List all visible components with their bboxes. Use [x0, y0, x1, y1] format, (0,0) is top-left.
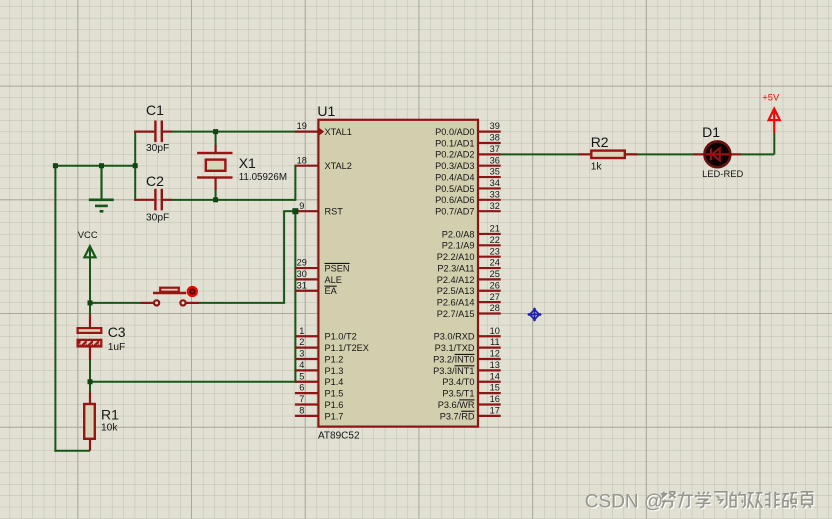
svg-text:39: 39 — [490, 121, 500, 131]
wire LED net R2 to D1 — [626, 153, 695, 155]
node C3 R1 junction — [88, 379, 93, 384]
svg-text:P3.0/RXD: P3.0/RXD — [434, 332, 475, 342]
svg-text:24: 24 — [490, 258, 500, 268]
svg-text:P2.4/A12: P2.4/A12 — [437, 275, 475, 285]
pin 13 P3.3/INT1 (right) — [433, 360, 501, 376]
svg-text:P1.4: P1.4 — [325, 377, 344, 387]
LED D1 — [705, 141, 731, 167]
pin 39 P0.0/AD0 (right) — [435, 121, 501, 137]
svg-text:X1: X1 — [239, 155, 256, 171]
svg-text:30: 30 — [297, 269, 307, 279]
svg-text:EA: EA — [325, 286, 338, 296]
svg-text:33: 33 — [490, 189, 500, 199]
svg-text:C2: C2 — [146, 173, 164, 189]
capacitor C3 (electrolytic) — [78, 328, 102, 346]
svg-text:ALE: ALE — [325, 275, 342, 285]
svg-text:10k: 10k — [101, 422, 118, 433]
pin 32 P0.7/AD7 (right) — [435, 201, 501, 217]
watermark CSDN @努力学习的双非硕 — [585, 491, 815, 513]
svg-text:P2.0/A8: P2.0/A8 — [442, 229, 475, 239]
svg-text:XTAL2: XTAL2 — [325, 161, 352, 171]
svg-text:D1: D1 — [702, 124, 720, 140]
node gnd rail left — [53, 163, 58, 168]
pin 24 P2.3/A11 (right) — [437, 258, 500, 274]
svg-text:34: 34 — [490, 178, 500, 188]
svg-text:31: 31 — [297, 280, 307, 290]
pin 17 P3.7/RD (right) — [440, 405, 501, 421]
pin 31 EA (left) — [295, 280, 338, 296]
pin 38 P0.1/AD1 (right) — [435, 133, 501, 149]
wire ground rail — [54, 165, 136, 167]
pin 8 P1.7 (left) — [295, 405, 344, 421]
wire button right pin — [186, 302, 199, 304]
svg-text:P0.4/AD4: P0.4/AD4 — [435, 172, 474, 182]
svg-text:P2.6/A14: P2.6/A14 — [437, 298, 475, 308]
wire X1 bottom stub lower — [215, 190, 217, 201]
svg-text:P2.7/A15: P2.7/A15 — [437, 309, 475, 319]
svg-text:P0.6/AD6: P0.6/AD6 — [435, 195, 474, 205]
svg-text:P3.4/T0: P3.4/T0 — [442, 377, 474, 387]
power VCC arrow — [84, 246, 95, 257]
svg-text:11: 11 — [490, 337, 500, 347]
svg-text:1k: 1k — [591, 161, 603, 172]
wire LED net chip to R2 — [500, 153, 580, 155]
pin 37 P0.2/AD2 (right) — [435, 144, 501, 160]
svg-text:26: 26 — [490, 280, 500, 290]
pin 16 P3.6/WR (right) — [438, 394, 501, 410]
pin 5 P1.4 (left) — [295, 371, 344, 387]
svg-text:32: 32 — [490, 201, 500, 211]
wire X1 top pin — [215, 145, 217, 153]
svg-text:27: 27 — [490, 292, 500, 302]
svg-text:P2.1/A9: P2.1/A9 — [442, 241, 475, 251]
svg-text:35: 35 — [490, 167, 500, 177]
resistor R1 — [84, 404, 95, 439]
wire RST jog horizontal — [283, 210, 295, 212]
pin 23 P2.2/A10 (right) — [437, 246, 501, 262]
pin 36 P0.3/AD3 (right) — [435, 155, 501, 171]
wire bottom wire — [54, 450, 90, 452]
node C1-XTAL1-X1 junction — [213, 129, 218, 134]
svg-text:P0.3/AD3: P0.3/AD3 — [435, 161, 474, 171]
op: microcontroller U1 AT89C52 body — [318, 120, 478, 427]
wire VCC stem — [89, 247, 91, 303]
svg-text:P1.3: P1.3 — [325, 366, 344, 376]
svg-text:+5V: +5V — [762, 92, 780, 103]
pin 28 P2.7/A15 (right) — [437, 303, 501, 319]
svg-text:P0.0/AD0: P0.0/AD0 — [435, 127, 474, 137]
node RST junction — [292, 208, 298, 214]
svg-text:13: 13 — [490, 360, 500, 370]
svg-text:P1.0/T2: P1.0/T2 — [325, 332, 357, 342]
svg-text:P0.1/AD1: P0.1/AD1 — [435, 138, 474, 148]
pin 22 P2.1/A9 (right) — [442, 235, 501, 251]
wire button net left — [89, 302, 142, 304]
svg-text:1: 1 — [299, 326, 304, 336]
svg-text:18: 18 — [297, 155, 307, 165]
wire X1 top stub upper — [215, 131, 217, 146]
origin crosshair marker — [528, 308, 541, 321]
svg-text:14: 14 — [490, 371, 500, 381]
wire C1-C2 left vertical — [134, 131, 136, 201]
wire C2 right pin — [163, 199, 172, 201]
svg-text:R2: R2 — [591, 134, 609, 150]
svg-text:VCC: VCC — [78, 229, 98, 240]
svg-text:19: 19 — [297, 121, 307, 131]
svg-text:21: 21 — [490, 224, 500, 234]
wire C1 right pin — [163, 131, 172, 133]
wire divider long horizontal — [89, 381, 296, 383]
wire LED net vertical to +5V — [773, 132, 775, 154]
pin 29 PSEN (left) — [295, 258, 350, 274]
resistor R2 — [591, 151, 625, 158]
svg-text:6: 6 — [299, 383, 304, 393]
svg-text:8: 8 — [299, 405, 304, 415]
svg-text:R1: R1 — [101, 406, 119, 422]
node gnd stem junction — [99, 163, 104, 168]
crystal X1 — [197, 152, 232, 179]
wire XTAL2 net horizontal — [172, 199, 296, 201]
svg-text:P1.7: P1.7 — [325, 411, 344, 421]
power +5V arrow — [769, 109, 780, 121]
svg-text:CSDN @: CSDN @ — [585, 491, 663, 512]
wire XTAL1 net C1 to chip — [172, 131, 296, 133]
svg-text:P0.7/AD7: P0.7/AD7 — [435, 207, 474, 217]
svg-text:RST: RST — [325, 207, 344, 217]
svg-text:P3.5/T1: P3.5/T1 — [442, 389, 474, 399]
svg-text:30pF: 30pF — [146, 143, 169, 154]
wire left rail vertical — [54, 165, 56, 452]
svg-text:P3.2/INT0: P3.2/INT0 — [433, 354, 474, 364]
push button (reset) — [153, 286, 198, 306]
svg-text:P1.2: P1.2 — [325, 354, 344, 364]
pin 9 RST (left) — [295, 201, 343, 217]
wire XTAL2 net vertical — [294, 165, 296, 201]
pin 34 P0.5/AD5 (right) — [435, 178, 501, 194]
pin 11 P3.1/TXD (right) — [435, 337, 501, 353]
svg-text:PSEN: PSEN — [325, 263, 350, 273]
svg-text:C1: C1 — [146, 102, 164, 118]
wire X1 bottom pin — [215, 178, 217, 190]
wire R2 left pin — [579, 153, 591, 155]
svg-text:XTAL1: XTAL1 — [325, 127, 352, 137]
wire C2 left pin — [134, 199, 154, 201]
svg-text:25: 25 — [490, 269, 500, 279]
pin 6 P1.5 (left) — [295, 383, 344, 399]
svg-text:C3: C3 — [108, 324, 126, 340]
pin 18 XTAL2 (left) — [295, 155, 352, 171]
svg-text:AT89C52: AT89C52 — [318, 430, 360, 441]
wire D1 left pin — [694, 153, 705, 155]
svg-text:16: 16 — [490, 394, 500, 404]
svg-text:P2.2/A10: P2.2/A10 — [437, 252, 475, 262]
svg-text:P1.1/T2EX: P1.1/T2EX — [325, 343, 369, 353]
pin 2 P1.1/T2EX (left) — [295, 337, 369, 353]
svg-text:7: 7 — [299, 394, 304, 404]
svg-text:38: 38 — [490, 133, 500, 143]
svg-text:P3.7/RD: P3.7/RD — [440, 411, 475, 421]
svg-text:17: 17 — [490, 405, 500, 415]
pin 7 P1.6 (left) — [295, 394, 344, 410]
svg-text:2: 2 — [299, 337, 304, 347]
wire button to RST vertical — [283, 211, 285, 303]
pin 21 P2.0/A8 (right) — [442, 224, 501, 240]
svg-text:30pF: 30pF — [146, 212, 169, 223]
svg-text:LED-RED: LED-RED — [702, 168, 743, 179]
svg-text:36: 36 — [490, 155, 500, 165]
svg-text:12: 12 — [490, 349, 500, 359]
svg-text:3: 3 — [299, 349, 304, 359]
svg-text:5: 5 — [299, 371, 304, 381]
wire C1 left pin — [134, 131, 154, 133]
svg-text:1uF: 1uF — [108, 342, 126, 353]
svg-text:10: 10 — [490, 326, 500, 336]
wire R1 top stem — [89, 382, 91, 394]
svg-text:P0.5/AD5: P0.5/AD5 — [435, 184, 474, 194]
wire C3 bottom pin — [89, 347, 91, 360]
svg-text:23: 23 — [490, 246, 500, 256]
node C1C2 rail junction — [133, 163, 138, 168]
wire R1 bottom pin — [89, 440, 91, 451]
capacitor C1 — [154, 121, 163, 143]
pin 10 P3.0/RXD (right) — [434, 326, 501, 342]
wire RST divider vertical — [294, 211, 296, 382]
svg-text:P3.3/INT1: P3.3/INT1 — [433, 366, 474, 376]
wire D1 right pin — [731, 153, 741, 155]
wire C3 top pin — [89, 315, 91, 328]
XTAL1 clock arrow marker — [320, 128, 325, 135]
wire C3 bottom stem — [89, 359, 91, 382]
wire button net right — [198, 302, 285, 304]
svg-text:P2.3/A11: P2.3/A11 — [437, 263, 474, 273]
pin 15 P3.5/T1 (right) — [442, 383, 500, 399]
svg-text:29: 29 — [297, 258, 307, 268]
node VCC button junction — [88, 300, 93, 305]
pin 1 P1.0/T2 (left) — [295, 326, 357, 342]
wire C3 top stem — [89, 303, 91, 316]
pin 30 ALE (left) — [295, 269, 342, 285]
pin 12 P3.2/INT0 (right) — [433, 349, 501, 365]
svg-text:U1: U1 — [317, 103, 335, 119]
svg-text:4: 4 — [299, 360, 304, 370]
wire R1 top pin — [89, 393, 91, 404]
svg-text:P1.6: P1.6 — [325, 400, 344, 410]
pin 33 P0.6/AD6 (right) — [435, 189, 501, 205]
wire LED net D1 to corner — [740, 153, 774, 155]
svg-text:P0.2/AD2: P0.2/AD2 — [435, 150, 474, 160]
svg-text:P2.5/A13: P2.5/A13 — [437, 286, 475, 296]
pin 26 P2.5/A13 (right) — [437, 280, 501, 296]
ground symbol — [89, 166, 114, 212]
pin 4 P1.3 (left) — [295, 360, 344, 376]
svg-text:15: 15 — [490, 383, 500, 393]
pin 25 P2.4/A12 (right) — [437, 269, 501, 285]
pin 14 P3.4/T0 (right) — [442, 371, 500, 387]
capacitor C2 — [154, 189, 163, 211]
pin 35 P0.4/AD4 (right) — [435, 167, 501, 183]
svg-text:P3.6/WR: P3.6/WR — [438, 400, 475, 410]
svg-text:28: 28 — [490, 303, 500, 313]
svg-text:22: 22 — [490, 235, 500, 245]
wire R2 right pin — [626, 153, 638, 155]
svg-text:9: 9 — [299, 201, 304, 211]
svg-text:P1.5: P1.5 — [325, 389, 344, 399]
wire button left pin — [141, 302, 153, 304]
svg-text:11.05926M: 11.05926M — [239, 172, 287, 183]
node C2-XTAL2-X1 junction — [213, 197, 218, 202]
pin 19 XTAL1 (left) — [295, 121, 352, 137]
pin 27 P2.6/A14 (right) — [437, 292, 501, 308]
svg-text:37: 37 — [490, 144, 500, 154]
pin 3 P1.2 (left) — [295, 349, 344, 365]
svg-text:P3.1/TXD: P3.1/TXD — [435, 343, 475, 353]
